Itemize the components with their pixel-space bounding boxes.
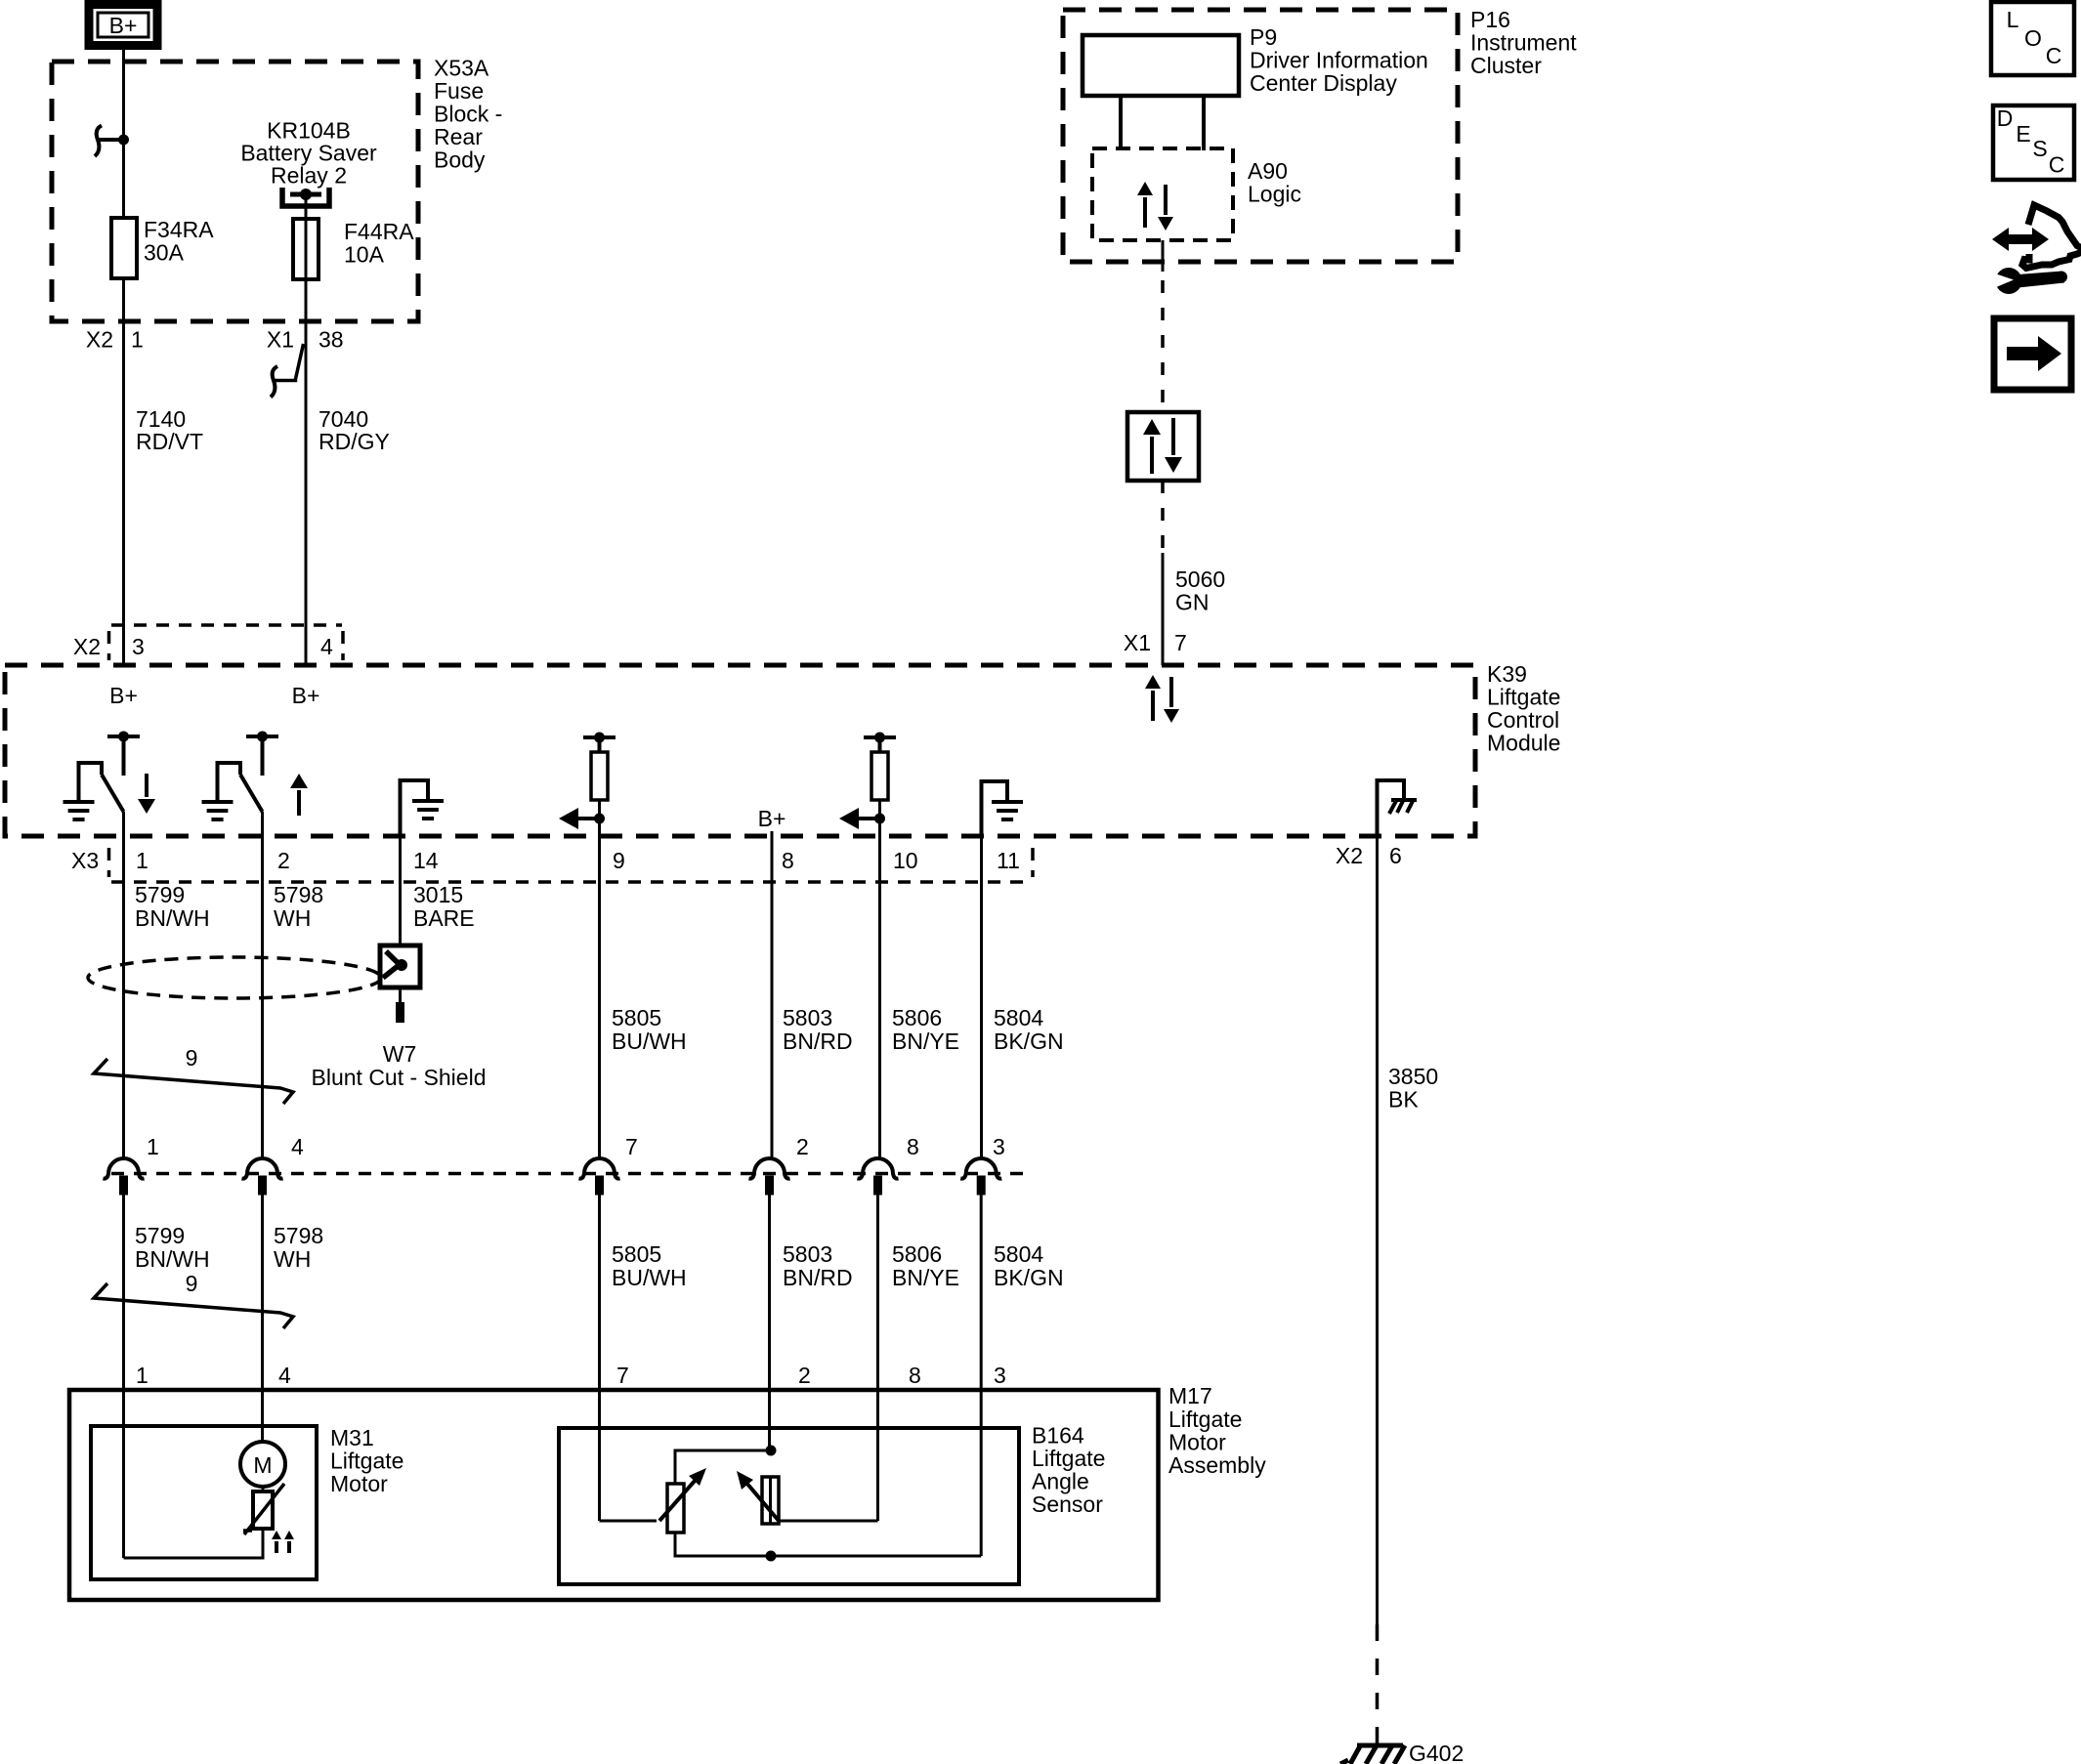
svg-text:Module: Module <box>1487 731 1560 756</box>
svg-text:Liftgate: Liftgate <box>1032 1446 1105 1471</box>
svg-text:4: 4 <box>278 1363 291 1388</box>
wire label 5060 GN <box>1175 567 1225 615</box>
svg-text:WH: WH <box>274 905 311 931</box>
svg-text:BU/WH: BU/WH <box>612 1265 687 1290</box>
internal ground hook at pin X3-14 <box>401 780 445 882</box>
pin labels above M17: 1 4 7 2 8 3 <box>136 1363 1006 1388</box>
svg-text:Blunt Cut - Shield: Blunt Cut - Shield <box>312 1065 487 1090</box>
svg-text:B+: B+ <box>109 13 138 38</box>
svg-text:1: 1 <box>136 848 149 873</box>
wire 5798 WH (lower) <box>261 1194 264 1443</box>
svg-text:X3: X3 <box>71 848 99 873</box>
svg-text:WH: WH <box>274 1246 311 1272</box>
svg-text:8: 8 <box>909 1363 921 1388</box>
connector label X1 pin 7 <box>1124 630 1187 655</box>
svg-text:38: 38 <box>319 327 344 353</box>
svg-text:A90: A90 <box>1248 158 1288 184</box>
svg-text:3850: 3850 <box>1388 1064 1438 1089</box>
fuse F34RA 30A <box>111 217 214 278</box>
relay KR104B Battery Saver Relay 2 <box>240 118 377 207</box>
svg-text:5804: 5804 <box>994 1241 1043 1267</box>
svg-text:BN/RD: BN/RD <box>783 1265 853 1290</box>
svg-text:5798: 5798 <box>274 882 323 907</box>
display P9 Driver Information Center Display <box>1083 24 1428 150</box>
svg-text:B164: B164 <box>1032 1423 1084 1449</box>
wire 5798 WH (upper) <box>261 882 264 1158</box>
svg-text:BN/YE: BN/YE <box>892 1265 959 1290</box>
motor thermal protector (PTC) <box>243 1484 294 1553</box>
svg-text:3: 3 <box>993 1134 1005 1159</box>
svg-text:1: 1 <box>136 1363 149 1388</box>
svg-text:X2: X2 <box>1336 843 1363 868</box>
svg-text:B+: B+ <box>109 683 138 708</box>
svg-text:X2: X2 <box>73 634 101 659</box>
svg-text:8: 8 <box>907 1134 919 1159</box>
shield termination box W7 <box>380 945 420 987</box>
svg-text:BN/RD: BN/RD <box>783 1029 853 1054</box>
switch (liftgate close) to pin X3-1 with down arrow <box>64 732 156 883</box>
instrument cluster P16 dashed box <box>1063 10 1458 262</box>
assembly M17 Liftgate Motor Assembly box <box>69 1390 1159 1600</box>
wire 3850 dashed lower section <box>1376 1624 1380 1744</box>
svg-text:5803: 5803 <box>783 1241 832 1267</box>
connector X2 pins 3 and 4 (top of K39) <box>73 625 343 660</box>
label M31 Liftgate Motor <box>330 1425 403 1496</box>
svg-text:14: 14 <box>413 848 439 873</box>
connector label X2 pin 6 <box>1336 843 1402 868</box>
svg-text:Liftgate: Liftgate <box>1487 685 1560 710</box>
svg-text:30A: 30A <box>144 240 185 266</box>
label A90 Logic <box>1248 158 1301 207</box>
inline connector terminal pin 2 <box>749 1134 809 1196</box>
splice takeout on wire 7140 <box>95 126 129 157</box>
wire 5804 BK/GN (lower) <box>980 1194 983 1556</box>
svg-text:C: C <box>2049 152 2065 178</box>
connector labels X2 pin 1 (fuse block bottom) <box>86 327 144 353</box>
wire 5803 BN/RD (upper) <box>771 882 774 1158</box>
svg-text:S: S <box>2032 136 2047 161</box>
pot 1 wiper arrow (from pin 7) <box>659 1468 706 1521</box>
svg-text:Control: Control <box>1487 707 1559 733</box>
svg-text:BK/GN: BK/GN <box>994 1265 1064 1290</box>
svg-text:Assembly: Assembly <box>1168 1452 1266 1478</box>
svg-text:X53A: X53A <box>434 56 489 81</box>
svg-text:O: O <box>2024 25 2042 51</box>
svg-text:Driver Information: Driver Information <box>1250 48 1428 73</box>
svg-text:Liftgate: Liftgate <box>1168 1407 1242 1432</box>
icon LOC box <box>1991 2 2074 75</box>
svg-text:5798: 5798 <box>274 1223 323 1248</box>
node B+ power feed box <box>89 5 157 46</box>
svg-text:F34RA: F34RA <box>144 217 214 242</box>
pull-up resistor with signal arrow at pin X3-10 <box>839 733 896 883</box>
svg-text:5799: 5799 <box>135 882 185 907</box>
blunt cut bar <box>399 987 402 1002</box>
svg-text:5803: 5803 <box>783 1005 832 1030</box>
svg-text:2: 2 <box>798 1363 811 1388</box>
svg-text:E: E <box>2016 121 2030 147</box>
inline connector terminal pin 7 <box>579 1134 638 1196</box>
wire 5805 BU/WH (lower) <box>598 1194 601 1521</box>
svg-text:Center Display: Center Display <box>1250 70 1397 96</box>
svg-text:5804: 5804 <box>994 1005 1043 1030</box>
svg-text:3: 3 <box>132 634 145 659</box>
svg-text:3: 3 <box>994 1363 1006 1388</box>
motor M31 Liftgate Motor box <box>91 1426 317 1579</box>
svg-text:X1: X1 <box>267 327 294 353</box>
svg-text:5806: 5806 <box>892 1241 942 1267</box>
inline connector terminal pin 8 <box>858 1134 919 1196</box>
serial data symbol box with up/down arrows <box>1127 412 1199 481</box>
inline connector terminal pin 4 <box>242 1134 305 1196</box>
inline connector dashed row <box>111 1172 1033 1176</box>
svg-text:W7: W7 <box>383 1041 417 1067</box>
svg-text:BN/WH: BN/WH <box>135 905 210 931</box>
wire 5805 BU/WH (upper) <box>598 882 601 1158</box>
svg-text:BK: BK <box>1388 1087 1419 1113</box>
svg-text:4: 4 <box>320 634 333 659</box>
icon DESC box <box>1993 105 2074 180</box>
svg-text:X1: X1 <box>1124 630 1151 655</box>
svg-text:5060: 5060 <box>1175 567 1225 592</box>
svg-text:Motor: Motor <box>1168 1430 1226 1455</box>
wire label 3850 BK <box>1388 1064 1438 1113</box>
wire 5799 BN/WH (upper) <box>122 882 125 1158</box>
svg-text:Instrument: Instrument <box>1470 30 1577 56</box>
pull-up resistor with signal arrow at pin X3-9 <box>559 733 616 883</box>
bidirectional serial data arrows inside A90 <box>1137 182 1173 231</box>
wire 5806 BN/YE (upper) <box>878 882 881 1158</box>
inline connector terminal pin 1 <box>104 1134 159 1196</box>
svg-text:K39: K39 <box>1487 661 1527 687</box>
svg-text:RD/GY: RD/GY <box>319 429 390 454</box>
svg-text:Angle: Angle <box>1032 1469 1089 1494</box>
svg-text:Motor: Motor <box>330 1471 388 1496</box>
fuse block X53A dashed box <box>52 62 418 321</box>
fuse F44RA 10A <box>293 219 414 279</box>
svg-text:1: 1 <box>147 1134 159 1159</box>
wire 3015 BARE (shield drain) <box>399 882 402 1002</box>
wire 5803 BN/RD (lower) <box>768 1194 771 1450</box>
svg-text:5799: 5799 <box>135 1223 185 1248</box>
svg-text:B+: B+ <box>292 683 320 708</box>
node B+ at pin X3-8 <box>758 806 786 882</box>
icon vehicle with double arrow and wrench <box>1989 205 2081 294</box>
internal ground hook at pin X3-11 <box>982 781 1024 882</box>
svg-text:Cluster: Cluster <box>1470 53 1542 78</box>
label K39 Liftgate Control Module <box>1487 661 1560 756</box>
svg-text:Fuse: Fuse <box>434 78 484 104</box>
svg-text:Sensor: Sensor <box>1032 1491 1103 1517</box>
wire 5799 BN/WH (lower) <box>122 1194 125 1558</box>
svg-text:7: 7 <box>616 1363 629 1388</box>
svg-text:X2: X2 <box>86 327 113 353</box>
sensor B164 Liftgate Angle Sensor box <box>559 1428 1019 1584</box>
label M17 Liftgate Motor Assembly <box>1168 1383 1266 1478</box>
svg-text:RD/VT: RD/VT <box>136 429 203 454</box>
svg-text:Logic: Logic <box>1248 182 1301 207</box>
wire label 7140 RD/VT <box>136 406 203 454</box>
svg-text:5805: 5805 <box>612 1005 661 1030</box>
icon forward arrow box <box>1994 318 2071 390</box>
svg-text:B+: B+ <box>758 806 786 831</box>
svg-text:9: 9 <box>186 1271 198 1296</box>
wire 5806 BN/YE (lower) <box>876 1194 879 1521</box>
svg-text:Relay 2: Relay 2 <box>271 163 347 189</box>
serial data wire (dashed) from A90 to data link symbol <box>1162 240 1165 272</box>
wire loop inside M31 (pin 1 to motor) <box>124 1529 264 1558</box>
svg-text:2: 2 <box>277 848 290 873</box>
wire label 7040 RD/GY <box>319 406 390 454</box>
svg-text:BN/YE: BN/YE <box>892 1029 959 1054</box>
svg-text:BARE: BARE <box>413 905 475 931</box>
switch (liftgate open) to pin X3-2 with up arrow <box>202 732 309 883</box>
svg-text:M17: M17 <box>1168 1383 1212 1408</box>
svg-text:10A: 10A <box>344 242 385 268</box>
wire 7140 from B+ through fuse F34RA down to K39 pin X2-3 <box>122 48 125 665</box>
svg-text:C: C <box>2046 43 2062 68</box>
svg-text:Block -: Block - <box>434 102 502 127</box>
wire 5060 GN dashed then solid down to K39 pin X1-7 <box>1161 481 1165 553</box>
svg-text:10: 10 <box>893 848 918 873</box>
module K39 Liftgate Control Module dashed box <box>5 665 1475 836</box>
svg-text:3015: 3015 <box>413 882 463 907</box>
svg-text:2: 2 <box>796 1134 809 1159</box>
svg-text:6: 6 <box>1389 843 1402 868</box>
label W7 Blunt Cut - Shield <box>312 1041 487 1090</box>
connector labels X1 pin 38 (fuse block bottom) <box>267 327 344 353</box>
svg-text:1: 1 <box>131 327 144 353</box>
svg-text:GN: GN <box>1175 590 1210 615</box>
pot 2 wiper arrow (from pin 8) <box>737 1471 779 1521</box>
svg-text:P9: P9 <box>1250 24 1277 50</box>
svg-text:Liftgate: Liftgate <box>330 1449 403 1474</box>
svg-text:7: 7 <box>1174 630 1187 655</box>
inline connector terminal pin 3 <box>960 1134 1005 1196</box>
angle sensor potentiometer network <box>600 1446 982 1562</box>
svg-text:5805: 5805 <box>612 1241 661 1267</box>
svg-text:D: D <box>1997 105 2014 131</box>
twisted pair mark (upper) with count 9 <box>94 1045 293 1104</box>
svg-text:8: 8 <box>782 848 794 873</box>
svg-text:G402: G402 <box>1409 1741 1464 1764</box>
svg-text:F44RA: F44RA <box>344 219 414 244</box>
svg-text:7: 7 <box>625 1134 638 1159</box>
svg-text:BK/GN: BK/GN <box>994 1029 1064 1054</box>
connector X3 pin row labels <box>71 848 1033 882</box>
svg-text:Body: Body <box>434 147 486 173</box>
ground G402 <box>1340 1741 1464 1764</box>
wire 5804 BK/GN (upper) <box>980 882 983 1158</box>
svg-text:9: 9 <box>613 848 625 873</box>
takeout on wire 7040 below X1-38 <box>271 344 304 398</box>
logic block A90 dashed box <box>1092 148 1233 240</box>
internal chassis ground at pin X2-6 <box>1378 780 1418 1624</box>
svg-text:BN/WH: BN/WH <box>135 1246 210 1272</box>
svg-text:11: 11 <box>997 848 1020 873</box>
motor symbol M <box>240 1442 285 1487</box>
label B164 Liftgate Angle Sensor <box>1032 1423 1105 1518</box>
label X53A Fuse Block - Rear Body <box>434 56 502 173</box>
svg-text:4: 4 <box>291 1134 304 1159</box>
shield ellipse around wires <box>88 957 381 998</box>
wire 7040 from relay KR104B through fuse F44RA down to K39 pin X2-4 <box>305 194 308 665</box>
svg-text:9: 9 <box>186 1045 198 1071</box>
bidirectional arrows below X1-7 inside K39 <box>1145 675 1179 723</box>
svg-text:M: M <box>253 1452 272 1478</box>
svg-text:M31: M31 <box>330 1425 374 1450</box>
svg-text:BU/WH: BU/WH <box>612 1029 687 1054</box>
svg-text:P16: P16 <box>1470 7 1510 32</box>
twisted pair mark (lower) with count 9 <box>94 1271 293 1328</box>
svg-text:L: L <box>2007 7 2019 32</box>
svg-text:Rear: Rear <box>434 124 483 149</box>
label P16 Instrument Cluster <box>1470 7 1577 78</box>
svg-text:5806: 5806 <box>892 1005 942 1030</box>
